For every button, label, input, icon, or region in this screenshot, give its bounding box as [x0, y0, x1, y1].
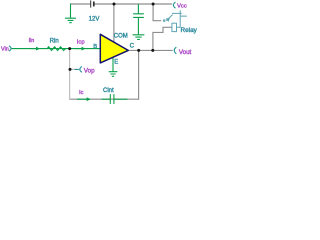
svg-text:Relay: Relay — [181, 27, 198, 34]
svg-text:Icp: Icp — [77, 39, 86, 45]
svg-text:C: C — [130, 43, 135, 50]
svg-text:Iin: Iin — [29, 38, 35, 44]
svg-text:Ic: Ic — [79, 90, 84, 96]
svg-text:Vop: Vop — [84, 68, 95, 75]
svg-text:Rin: Rin — [50, 37, 59, 44]
svg-text:COM: COM — [114, 34, 128, 40]
svg-text:12V: 12V — [89, 16, 101, 23]
svg-text:Cint: Cint — [103, 88, 114, 94]
svg-text:Vout: Vout — [179, 49, 192, 56]
svg-text:Vcc: Vcc — [177, 4, 187, 10]
svg-text:Vin: Vin — [1, 47, 9, 53]
svg-text:E: E — [114, 60, 118, 66]
svg-text:B: B — [93, 44, 97, 50]
